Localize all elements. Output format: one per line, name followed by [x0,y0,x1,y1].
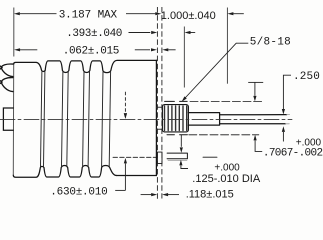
svg-text:.250: .250 [293,71,320,83]
svg-text:.393±.040: .393±.040 [66,28,122,40]
svg-text:1.000±.040: 1.000±.040 [161,10,216,22]
svg-text:+.000: +.000 [214,162,240,173]
svg-text:.7067-.002: .7067-.002 [263,147,323,159]
svg-text:.125-.010 DIA: .125-.010 DIA [192,173,261,185]
svg-text:.630±.010: .630±.010 [50,186,107,198]
svg-text:3.187 MAX: 3.187 MAX [59,10,118,22]
svg-text:5/8-18: 5/8-18 [250,36,291,48]
svg-text:.062±.015: .062±.015 [63,46,119,58]
svg-text:.118±.015: .118±.015 [186,189,234,201]
